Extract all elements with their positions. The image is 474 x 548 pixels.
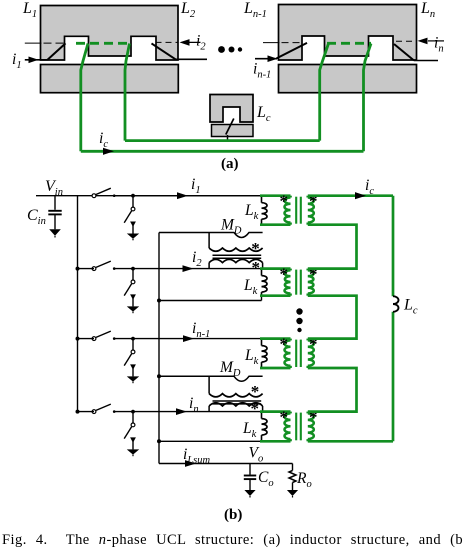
- junction node bus2/Lk4: [157, 439, 161, 443]
- green wire through window2 down to upper bus: [125, 44, 130, 141]
- wire i2 lead with arrow: [184, 41, 201, 43]
- ground (Cin): [49, 229, 61, 236]
- svg-text:ic: ic: [365, 177, 374, 197]
- ground (Co): [244, 490, 255, 496]
- wire phase 3: [78, 338, 95, 340]
- green link T2-T3: [308, 296, 357, 339]
- svg-text:*: *: [279, 264, 288, 283]
- transformer T4 core: [295, 413, 297, 441]
- switch S3 (phase 3): [92, 337, 96, 341]
- svg-text:Ln-1: Ln-1: [243, 0, 267, 20]
- wire Lk4 bottom to bus: [159, 440, 262, 442]
- second bus wire (output return): [158, 233, 160, 464]
- transformer T1 secondary (green): [306, 196, 309, 198]
- wire i2 dashed (hidden behind leg): [156, 41, 179, 43]
- wire in lead with arrow: [428, 40, 444, 42]
- ic arrow: [103, 148, 114, 155]
- current arrow i (row 4): [176, 408, 187, 415]
- capacitor Co: [249, 464, 251, 475]
- wire phase 1 to cell: [114, 195, 262, 197]
- svg-text:*: *: [252, 258, 261, 277]
- ground (row 4): [127, 449, 139, 454]
- junction node on bus (row 3): [76, 337, 80, 341]
- ellipsis dots between cores: [218, 46, 225, 53]
- green upper bus wire: [125, 139, 320, 142]
- wire in winding diagonal: [394, 44, 414, 61]
- svg-text:L1: L1: [22, 0, 37, 20]
- right core bottom bar: [279, 65, 417, 93]
- iLsum arrow: [185, 460, 196, 467]
- svg-text:Ln: Ln: [420, 0, 435, 20]
- inductor Lc (on secondary loop): [393, 296, 399, 312]
- ground (row 3): [127, 376, 139, 381]
- MD core lines: [213, 400, 262, 402]
- svg-text:Lc: Lc: [403, 297, 418, 317]
- switch S2 (phase 2): [92, 267, 96, 271]
- green right bus (secondary loop): [392, 196, 395, 297]
- svg-text:i1: i1: [12, 51, 22, 71]
- wire ic top (green): [308, 194, 393, 197]
- svg-text:Lc: Lc: [256, 104, 271, 124]
- svg-text:i1: i1: [191, 176, 201, 196]
- right core top piece (Ln-1/Ln E-core): [279, 5, 417, 61]
- green lower bus wire ic: [81, 150, 364, 153]
- current arrow i (row 2): [183, 265, 194, 272]
- transformer T2 secondary (green): [306, 269, 309, 271]
- svg-text:Vin: Vin: [45, 178, 63, 198]
- svg-text:i2: i2: [196, 33, 206, 53]
- green link T1-T2: [308, 225, 357, 269]
- wire phase 2: [78, 268, 95, 270]
- inductor Lk (phase 4): [261, 412, 263, 419]
- wire phase 4 to cell: [114, 411, 262, 413]
- wire i1 lead (thin return, dashed behind leg): [25, 42, 42, 44]
- MD lower winding: [208, 406, 210, 412]
- switch S2b (sync, to ground): [131, 267, 135, 271]
- wire through center core (diagonal): [226, 119, 234, 135]
- wire i1 winding diagonal: [48, 43, 66, 59]
- wire output iLsum: [159, 463, 293, 465]
- svg-text:L2: L2: [180, 0, 196, 20]
- green wire through window3 down to upper bus: [320, 44, 329, 141]
- transformer T1 core: [295, 197, 297, 224]
- svg-text:MD: MD: [219, 359, 241, 379]
- center core Lc upper piece: [210, 95, 253, 123]
- wire Lk2 bottom to bus: [159, 300, 262, 302]
- svg-text:*: *: [279, 334, 288, 353]
- svg-text:in: in: [189, 395, 199, 415]
- svg-text:in: in: [434, 35, 444, 55]
- resistor Ro: [292, 464, 294, 471]
- svg-text:(b): (b): [224, 507, 242, 523]
- transformer T1 primary (green): [260, 194, 291, 197]
- ground (row 2): [127, 306, 139, 311]
- MD upper winding: [208, 233, 210, 249]
- inductor Lk (phase 3): [261, 339, 263, 346]
- transformer T3 core: [295, 340, 297, 367]
- svg-text:*: *: [309, 191, 318, 210]
- ground (Ro): [287, 490, 298, 496]
- current arrow i (row 1): [177, 192, 188, 199]
- center core Lc lower bar: [212, 125, 254, 137]
- wire T4 bottom (green): [308, 440, 393, 443]
- svg-text:in-1: in-1: [253, 61, 271, 81]
- svg-text:*: *: [251, 399, 260, 418]
- ic arrow (b): [355, 192, 366, 199]
- svg-text:*: *: [309, 334, 318, 353]
- green wire through window1 down to ic bus: [81, 44, 88, 152]
- svg-text:ic: ic: [99, 130, 108, 150]
- wire in-1 lead with arrow: [255, 58, 277, 60]
- MD core lines: [213, 254, 262, 256]
- MD upper winding: [208, 376, 210, 393]
- green link T3-T4: [308, 368, 357, 412]
- svg-text:*: *: [279, 407, 288, 426]
- transformer T2 core: [295, 270, 297, 295]
- left core top piece (L1/L2 E-core): [41, 6, 179, 61]
- left core bottom bar: [41, 65, 179, 93]
- inductor Lk (phase 2): [261, 269, 263, 276]
- wire in dashed (hidden): [396, 40, 416, 42]
- coupled inductor MD top wire with loop: [159, 233, 263, 238]
- ground (row 1): [127, 234, 139, 239]
- figure caption: [2, 533, 474, 548]
- node Vin top wire: [36, 195, 262, 197]
- switch S1 (phase 1): [92, 194, 96, 198]
- svg-text:*: *: [309, 407, 318, 426]
- wire in exit lead: [414, 60, 438, 62]
- svg-text:(a): (a): [221, 156, 239, 172]
- wire in-1 thin return: [263, 42, 280, 44]
- svg-text:Lk: Lk: [244, 202, 259, 222]
- svg-text:iLsum: iLsum: [183, 446, 210, 466]
- switch S1b (sync, to ground): [131, 194, 135, 198]
- svg-text:*: *: [279, 191, 288, 210]
- svg-text:Lk: Lk: [243, 277, 258, 297]
- transformer T2 primary (green): [260, 267, 291, 270]
- junction node on bus (row 4): [76, 410, 80, 414]
- svg-text:Co: Co: [258, 469, 274, 489]
- svg-text:i2: i2: [192, 249, 202, 269]
- transformer T4 primary (green): [260, 410, 291, 413]
- coupled inductor MD top wire with loop: [159, 376, 263, 381]
- junction node on bus (row 2): [76, 267, 80, 271]
- green dashed link wire (right core): [327, 42, 371, 45]
- svg-text:Lk: Lk: [244, 347, 259, 367]
- vertical ellipsis between T2 and T3: [296, 308, 302, 314]
- transformer T3 secondary (green): [306, 339, 309, 341]
- wire i2 exit lead: [176, 58, 208, 60]
- wire phase 4: [78, 411, 95, 413]
- wire i2 winding diagonal: [152, 43, 176, 59]
- switch S4 (phase 4): [92, 410, 96, 414]
- transformer T3 primary (green): [260, 337, 291, 340]
- svg-text:*: *: [309, 264, 318, 283]
- current arrow i (row 3): [183, 335, 194, 342]
- green wire through window4 down to ic bus: [364, 44, 372, 152]
- wire in-1 winding diagonal: [277, 43, 308, 59]
- transformer T4 secondary (green): [306, 412, 309, 414]
- switch S3b (sync, to ground): [131, 337, 135, 341]
- MD lower winding: [208, 263, 210, 269]
- svg-text:Cin: Cin: [27, 207, 46, 227]
- wire phase 3 to cell: [114, 338, 262, 340]
- inductor Lk (phase 1): [261, 196, 263, 203]
- wire i1 lead with arrow: [25, 59, 49, 61]
- capacitor Cin: [54, 196, 56, 210]
- svg-text:Lk: Lk: [242, 420, 257, 440]
- green dashed link wire (left core): [76, 42, 130, 45]
- junction node bus2/MD2: [157, 374, 161, 378]
- junction node bus2/Lk2: [157, 299, 161, 303]
- svg-text:Vo: Vo: [249, 445, 264, 465]
- svg-text:Ro: Ro: [296, 470, 312, 490]
- svg-text:MD: MD: [220, 217, 242, 237]
- wire phase 2 to cell: [114, 268, 262, 270]
- svg-text:*: *: [251, 239, 260, 258]
- switch S4b (sync, to ground): [131, 410, 135, 414]
- svg-text:in-1: in-1: [192, 320, 210, 340]
- left bus wire: [77, 196, 79, 412]
